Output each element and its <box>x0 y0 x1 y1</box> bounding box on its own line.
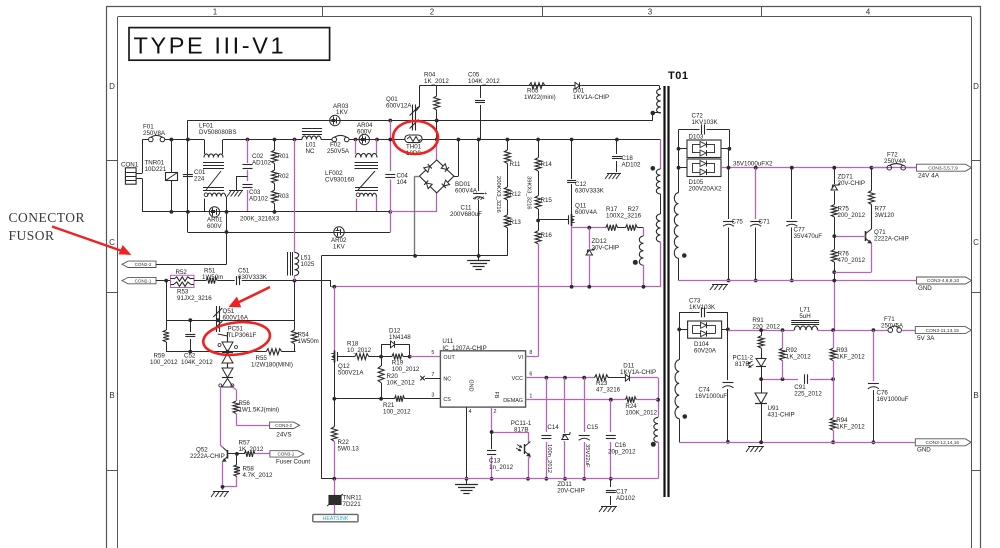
zener ZD12 <box>586 228 619 287</box>
svg-text:24V 4A: 24V 4A <box>918 173 940 180</box>
svg-text:AD102: AD102 <box>616 495 635 502</box>
svg-text:100X2_3216: 100X2_3216 <box>606 213 642 220</box>
svg-text:IC_1207A-CHIP: IC_1207A-CHIP <box>442 345 486 352</box>
wire snubber top <box>419 85 659 87</box>
capacitor C15 <box>579 378 599 481</box>
wire W2 bottom <box>660 242 662 287</box>
svg-text:CON2-2: CON2-2 <box>135 262 152 267</box>
flag CON3-2 <box>270 422 300 438</box>
svg-text:1KF_2012: 1KF_2012 <box>836 354 865 361</box>
svg-text:DEMAG: DEMAG <box>503 398 523 404</box>
svg-text:R16: R16 <box>541 232 553 239</box>
dual diode D105 <box>679 159 723 193</box>
wire BD01 right up <box>454 138 460 177</box>
svg-text:C: C <box>973 238 979 247</box>
svg-text:CONECTOR: CONECTOR <box>9 210 86 225</box>
svg-text:16V1000uF: 16V1000uF <box>695 393 727 400</box>
resistor R93 <box>830 330 865 379</box>
svg-text:CON3-12,14,16: CON3-12,14,16 <box>925 440 959 446</box>
label 200K_3216X3 <box>240 216 280 223</box>
svg-text:5V 3A: 5V 3A <box>917 335 935 342</box>
capacitor C17 <box>606 479 636 505</box>
wire Q52 base <box>228 452 245 456</box>
resistor R94 <box>830 379 865 444</box>
svg-text:7D221: 7D221 <box>343 501 362 508</box>
capacitor C01 <box>183 140 206 212</box>
svg-text:4.7K_2012: 4.7K_2012 <box>243 472 273 479</box>
svg-text:431-CHIP: 431-CHIP <box>768 412 795 419</box>
svg-text:4: 4 <box>866 8 871 17</box>
opto diode PC11-2 <box>733 355 767 380</box>
capacitor C02 <box>243 140 272 182</box>
svg-text:91JX2_3216: 91JX2_3216 <box>177 295 212 302</box>
svg-text:1KV103K: 1KV103K <box>692 119 719 126</box>
svg-text:4: 4 <box>469 409 472 415</box>
heatsink box <box>313 514 358 522</box>
fuse F71 <box>881 316 915 332</box>
svg-text:VI: VI <box>518 355 523 361</box>
opto triac PC51 <box>218 326 257 388</box>
wire primary top <box>659 86 660 89</box>
capacitor C91 <box>794 374 835 397</box>
svg-text:CON2-1: CON2-1 <box>135 278 152 283</box>
svg-text:1n_2012: 1n_2012 <box>489 464 514 471</box>
svg-text:600V12A: 600V12A <box>386 103 412 110</box>
wire CON1 to F01 <box>142 140 148 174</box>
svg-text:B: B <box>109 391 114 400</box>
zener ZD11 <box>557 378 585 495</box>
svg-text:35V22uF: 35V22uF <box>584 444 590 468</box>
resistor R18 <box>337 341 381 360</box>
svg-text:224: 224 <box>194 176 205 183</box>
resistor R04 <box>424 72 449 140</box>
wire C51 to aux rail <box>295 280 332 282</box>
varistor TNR01 <box>145 140 178 212</box>
transformer T01 core <box>665 70 689 497</box>
svg-text:250V5A: 250V5A <box>327 148 350 155</box>
svg-text:R01: R01 <box>278 153 290 160</box>
wire OUT pin <box>410 350 441 356</box>
resistor R01 <box>272 140 290 164</box>
capacitor C05 <box>468 72 500 140</box>
red arrow to CON2-2 <box>52 227 131 255</box>
svg-text:R13: R13 <box>510 219 522 226</box>
opto transistor PC11-1 <box>511 420 532 481</box>
svg-text:1K_2012: 1K_2012 <box>424 78 449 85</box>
svg-text:250V8A: 250V8A <box>143 130 166 137</box>
diode D12 <box>381 328 411 357</box>
chassis ground 24V <box>710 285 728 291</box>
primary winding W2a <box>656 169 660 194</box>
svg-text:200V680uF: 200V680uF <box>450 211 482 218</box>
capacitor C13 <box>487 432 514 481</box>
svg-text:20V-CHIP: 20V-CHIP <box>557 488 585 495</box>
svg-text:R12: R12 <box>510 191 522 198</box>
ground big primary <box>467 256 490 270</box>
svg-text:1: 1 <box>529 393 532 399</box>
resistor R76 <box>831 236 865 280</box>
wire Q12 source <box>332 363 336 401</box>
svg-text:1: 1 <box>213 8 218 17</box>
connector CON1 <box>121 162 142 185</box>
resistor R05 <box>524 83 556 101</box>
svg-text:2: 2 <box>494 409 497 415</box>
svg-text:R11: R11 <box>510 161 521 168</box>
resistor R16 <box>535 209 552 287</box>
ground big U11 <box>455 479 478 494</box>
svg-text:200K_3216X3: 200K_3216X3 <box>240 216 280 223</box>
svg-text:1W50m: 1W50m <box>298 338 319 345</box>
capacitor C71 <box>750 168 770 283</box>
resistor R13 <box>504 200 521 256</box>
inductor L71 <box>791 307 819 331</box>
svg-text:20V-CHIP: 20V-CHIP <box>838 180 866 187</box>
fuse F72 <box>872 152 917 171</box>
resistor R21 <box>383 392 440 415</box>
svg-text:AD102: AD102 <box>252 160 271 167</box>
svg-text:R52: R52 <box>176 269 188 276</box>
resistor R02 <box>272 164 290 184</box>
svg-text:2222A-CHIP: 2222A-CHIP <box>874 236 909 243</box>
resistor R27 <box>606 206 644 231</box>
svg-text:100n_2012: 100n_2012 <box>546 444 552 473</box>
svg-text:817B: 817B <box>735 361 749 368</box>
svg-text:AD102: AD102 <box>249 196 268 203</box>
diode D01 <box>545 82 659 101</box>
svg-text:C14: C14 <box>547 424 559 431</box>
wire fb row 5V <box>759 377 798 381</box>
capacitor C51 <box>217 268 296 286</box>
svg-text:TYPE III-V1: TYPE III-V1 <box>134 33 287 59</box>
resistor R92 <box>780 330 812 379</box>
svg-text:HEATSINK: HEATSINK <box>323 516 349 522</box>
flag CON3-111315 <box>915 327 971 342</box>
wire PC51 to R56 <box>232 387 236 401</box>
flag CON2-2 <box>122 261 156 267</box>
capacitor C04 <box>385 173 408 233</box>
transistor Q52 <box>190 447 228 462</box>
inductor L01 <box>302 129 322 156</box>
svg-text:NC: NC <box>306 148 315 155</box>
svg-text:GND: GND <box>468 380 474 392</box>
wire 5V gnd rail <box>679 440 915 444</box>
transistor Q01 <box>386 86 420 131</box>
resistor R24 <box>625 397 658 417</box>
wire earth row <box>321 254 507 258</box>
svg-text:3: 3 <box>431 392 434 398</box>
wire F01 to LF01 <box>165 138 204 142</box>
svg-text:3: 3 <box>648 8 653 17</box>
svg-text:R02: R02 <box>278 173 290 180</box>
capacitor C76 <box>868 330 909 444</box>
wire C04 column <box>388 121 392 172</box>
flag CON3-121416 <box>915 439 971 454</box>
resistor pair R52 R53 <box>171 269 213 302</box>
svg-text:35V1000uFX2: 35V1000uFX2 <box>733 160 773 167</box>
choke L51 <box>288 140 315 281</box>
red ellipse PC51 <box>201 319 271 359</box>
svg-text:8: 8 <box>529 350 532 356</box>
resistor R54 <box>292 281 319 352</box>
arrester AR04 <box>357 122 373 145</box>
svg-text:24VS: 24VS <box>276 432 291 439</box>
svg-text:1KV1A-CHIP: 1KV1A-CHIP <box>573 94 609 101</box>
wire LF01 box bottom <box>188 232 391 234</box>
svg-text:630V333K: 630V333K <box>238 274 268 281</box>
transistor Q11 <box>538 203 598 287</box>
svg-text:GND: GND <box>918 285 932 292</box>
svg-text:1025: 1025 <box>301 261 315 268</box>
svg-text:220_2012: 220_2012 <box>752 324 780 331</box>
chassis ground at C17 <box>599 507 617 513</box>
svg-text:20p_2012: 20p_2012 <box>608 449 636 456</box>
svg-text:5W0.13: 5W0.13 <box>338 446 360 453</box>
svg-text:1W1.5KJ(mini): 1W1.5KJ(mini) <box>239 407 280 414</box>
diode D11 <box>608 362 658 399</box>
resistor R56 <box>233 400 279 426</box>
wire DC+ rail <box>437 138 661 142</box>
svg-text:3W120: 3W120 <box>875 212 895 219</box>
wire Q52 emitter <box>221 462 225 491</box>
wire VI pin <box>526 287 539 357</box>
svg-text:5uH: 5uH <box>799 313 810 320</box>
wire CS row <box>334 397 394 401</box>
resistor R77 <box>869 168 895 219</box>
flag CON3-46810 <box>917 277 972 292</box>
capacitor C11 <box>450 140 487 256</box>
svg-text:20V-CHIP: 20V-CHIP <box>592 245 620 252</box>
dual diode D103 <box>679 134 732 158</box>
svg-text:TLP3061F: TLP3061F <box>228 332 257 339</box>
dual diode D104 <box>677 321 730 355</box>
svg-text:1KV1A-CHIP: 1KV1A-CHIP <box>620 369 656 376</box>
shunt reg U91 <box>755 379 795 442</box>
svg-text:35V470uF: 35V470uF <box>794 233 823 240</box>
svg-text:104K_2012: 104K_2012 <box>468 78 500 85</box>
resistor R17 <box>606 206 618 231</box>
capacitor C72 <box>679 113 730 149</box>
varistor TNR11 <box>327 479 362 515</box>
svg-text:C71: C71 <box>759 219 771 226</box>
svg-text:1KV103K: 1KV103K <box>689 304 716 311</box>
svg-text:2222A-CHIP: 2222A-CHIP <box>190 453 225 460</box>
capacitor C74 <box>695 329 733 443</box>
svg-text:200KX3_3216: 200KX3_3216 <box>495 176 501 213</box>
svg-text:100_2012: 100_2012 <box>383 409 411 416</box>
svg-text:39KX3_3216: 39KX3_3216 <box>526 176 532 210</box>
svg-text:250V4A: 250V4A <box>884 158 907 165</box>
fuse F02 <box>321 135 350 155</box>
resistor R58 <box>223 454 273 487</box>
red ellipse TH01 <box>393 121 438 154</box>
svg-text:+: + <box>484 191 487 197</box>
fuse F01 <box>143 124 166 142</box>
svg-text:104: 104 <box>397 179 408 186</box>
filter LF002 <box>325 140 378 212</box>
resistor R51 <box>194 268 223 284</box>
svg-text:CON1: CON1 <box>121 162 139 169</box>
resistor R03 <box>272 184 290 212</box>
wire 5V rail right <box>818 328 888 332</box>
svg-text:104K_2012: 104K_2012 <box>181 359 213 366</box>
red arrow to Q51 <box>230 287 271 307</box>
svg-text:1KV: 1KV <box>336 109 349 116</box>
flag CON2-1 <box>122 277 156 283</box>
capacitor C12 <box>567 140 605 214</box>
capacitor C77 <box>786 168 822 283</box>
capacitor C52 <box>181 320 213 366</box>
resistor R59 <box>150 320 178 366</box>
arrester AR01 <box>207 207 223 230</box>
svg-text:R03: R03 <box>278 193 290 200</box>
svg-text:CV930160: CV930160 <box>325 177 355 184</box>
capacitor C73 <box>679 298 728 330</box>
wire mid rail <box>188 119 653 123</box>
svg-text:1W22(mini): 1W22(mini) <box>524 94 556 101</box>
svg-text:VCC: VCC <box>512 376 523 382</box>
resistor R57 <box>239 439 270 457</box>
zone labels <box>109 8 979 401</box>
svg-text:NC: NC <box>443 377 451 383</box>
svg-text:CON3-3,5,7,9: CON3-3,5,7,9 <box>928 165 958 171</box>
svg-text:500V21A: 500V21A <box>338 370 364 377</box>
title box TYPE III-V1 <box>129 28 330 61</box>
resistor R75 <box>831 205 865 237</box>
svg-text:60V20A: 60V20A <box>694 348 717 355</box>
svg-text:1K_2012: 1K_2012 <box>786 354 811 361</box>
chassis ground 5V <box>746 447 764 453</box>
wire VCC rail <box>526 371 595 379</box>
bridge rectifier BD01 <box>419 140 477 195</box>
resistor R22 <box>331 399 359 478</box>
wire 24V rail <box>721 160 917 169</box>
svg-text:CON3-11,13,15: CON3-11,13,15 <box>926 328 960 334</box>
wire top row to C02 <box>223 138 302 142</box>
svg-text:1KF_2012: 1KF_2012 <box>836 424 865 431</box>
flag CON3-1 <box>270 451 310 466</box>
primary winding W2b <box>656 214 660 242</box>
svg-text:1W50m: 1W50m <box>202 274 223 281</box>
svg-text:600V: 600V <box>357 129 372 136</box>
svg-text:817B: 817B <box>514 426 528 433</box>
svg-text:630V333K: 630V333K <box>575 188 605 195</box>
resistor R20 <box>378 357 415 399</box>
ic U11 <box>440 338 525 415</box>
wire R55 row <box>166 350 257 354</box>
wire BD01 left to earth <box>415 176 420 256</box>
svg-text:47_3216: 47_3216 <box>596 386 621 393</box>
svg-text:600V: 600V <box>207 223 222 230</box>
svg-text:10K_2012: 10K_2012 <box>387 380 416 387</box>
resistor R19 <box>379 354 420 373</box>
svg-text:10D221: 10D221 <box>145 166 167 173</box>
chassis ground at C02/C03 <box>227 177 248 197</box>
resistor R12 <box>504 164 521 201</box>
resistor R14 <box>535 140 552 172</box>
capacitor C18 <box>612 140 641 173</box>
svg-text:CON3-2: CON3-2 <box>275 423 292 428</box>
wire Q71 base <box>832 234 861 238</box>
arrester AR03 <box>330 103 349 126</box>
svg-text:D: D <box>109 82 115 91</box>
svg-text:1KV: 1KV <box>333 244 346 251</box>
wire earth left drop <box>321 256 334 479</box>
svg-text:600V4A: 600V4A <box>575 209 598 216</box>
svg-text:C75: C75 <box>732 219 744 226</box>
wire GND pin <box>465 407 469 481</box>
svg-text:100K_2012: 100K_2012 <box>625 409 657 416</box>
thermistor TH01 <box>405 135 422 157</box>
resistor R91 <box>752 317 780 357</box>
svg-text:2: 2 <box>430 8 435 17</box>
capacitor C03 <box>243 185 269 212</box>
resistor R23 <box>594 375 620 394</box>
flag CON3-3579 <box>917 164 972 179</box>
svg-text:100_2012: 100_2012 <box>392 366 420 373</box>
resistor R55 <box>251 349 296 369</box>
wire AC return purple <box>390 193 436 212</box>
svg-text:Fuser Count: Fuser Count <box>276 459 310 466</box>
wire CON2-2 <box>156 210 228 265</box>
svg-text:470_2012: 470_2012 <box>838 257 866 264</box>
svg-text:200V20AX2: 200V20AX2 <box>689 186 723 193</box>
resistor R15 <box>535 171 552 209</box>
chassis ground at C18 <box>605 174 621 180</box>
svg-text:B: B <box>973 391 978 400</box>
wire F02 to TH01 <box>349 138 405 142</box>
filter LF01 <box>199 123 237 212</box>
svg-text:5: 5 <box>431 350 434 356</box>
wire DEMAG row <box>526 393 660 401</box>
svg-text:FB: FB <box>493 392 499 399</box>
secondary winding 24V <box>674 147 686 281</box>
wire TH01 to DC rail <box>422 138 439 142</box>
wire 5V rail <box>728 328 794 332</box>
svg-text:R14: R14 <box>541 161 553 168</box>
wire Q11 source row <box>572 226 606 230</box>
zener ZD71 <box>831 168 865 205</box>
svg-text:CON3-4,6,8,10: CON3-4,6,8,10 <box>927 278 960 284</box>
svg-text:DV508080BS: DV508080BS <box>199 129 237 136</box>
svg-text:6: 6 <box>529 371 532 377</box>
wire W2 top <box>651 140 661 171</box>
svg-text:T01: T01 <box>668 70 688 82</box>
svg-text:FUSOR: FUSOR <box>9 228 55 243</box>
svg-text:GND: GND <box>917 447 931 454</box>
chassis ground at Q52 <box>211 492 229 498</box>
secondary winding 5V <box>675 329 687 442</box>
svg-text:AD102: AD102 <box>622 162 641 169</box>
wire primary gnd rail <box>332 477 658 481</box>
capacitor C14 <box>541 378 559 481</box>
svg-text:C15: C15 <box>587 424 599 431</box>
svg-text:7: 7 <box>431 372 434 378</box>
svg-text:R15: R15 <box>541 197 553 204</box>
wire aux rail <box>331 281 661 289</box>
svg-text:600V16A: 600V16A <box>223 315 249 322</box>
svg-text:CON3-1: CON3-1 <box>277 452 294 457</box>
aux winding bottom <box>651 400 659 479</box>
wire ZD71 col to 5V rail <box>832 279 836 331</box>
wire FB pin <box>490 407 528 434</box>
svg-text:200_2012: 200_2012 <box>838 212 866 219</box>
capacitor C16 <box>606 400 636 481</box>
svg-text:D103: D103 <box>689 134 704 141</box>
wire LF01 box left <box>187 121 189 233</box>
wire CON2-1 <box>156 279 171 283</box>
svg-text:1/2W180(MINI): 1/2W180(MINI) <box>251 362 293 369</box>
svg-text:100_2012: 100_2012 <box>150 359 178 366</box>
